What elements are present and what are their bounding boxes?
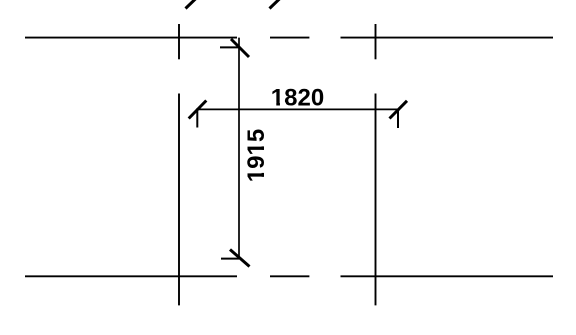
svg-text:1915: 1915 bbox=[243, 129, 270, 182]
wire: right vertical centerline short top segment bbox=[375, 24, 377, 59]
tick at right of horizontal dimension bbox=[390, 101, 408, 119]
extension stub at left of horizontal dimension bbox=[196, 110, 198, 128]
svg-text:1820: 1820 bbox=[271, 85, 324, 112]
dimension line vertical (1915) bbox=[238, 38, 240, 259]
wire: top centerline left segment bbox=[25, 37, 237, 39]
extension stub at bottom of vertical dimension bbox=[221, 258, 239, 260]
partial tick at top edge (left) bbox=[186, 0, 199, 9]
extension stub at top of vertical dimension bbox=[220, 46, 239, 48]
tick at left of horizontal dimension bbox=[189, 101, 207, 119]
dimension line horizontal (1820) bbox=[196, 108, 400, 110]
partial tick at top edge (right) bbox=[270, 0, 283, 9]
wire: right vertical centerline long segment bbox=[375, 94, 377, 306]
wire: bottom centerline left segment bbox=[25, 275, 237, 277]
wire: bottom centerline short dash bbox=[270, 275, 309, 277]
wire: bottom centerline right segment bbox=[341, 275, 554, 277]
tick at top of vertical dimension bbox=[231, 39, 249, 57]
glyph serif touch-up masks (target font has serif-less digit 1) bbox=[271, 103, 276, 107]
wire: top centerline short dash bbox=[270, 37, 309, 39]
wire: left vertical centerline short top segment bbox=[178, 24, 180, 59]
wire: left vertical centerline long segment bbox=[178, 94, 180, 306]
wire: top centerline right segment bbox=[341, 37, 554, 39]
extension stub at right of horizontal dimension bbox=[397, 110, 399, 129]
tick at bottom of vertical dimension bbox=[230, 250, 250, 267]
